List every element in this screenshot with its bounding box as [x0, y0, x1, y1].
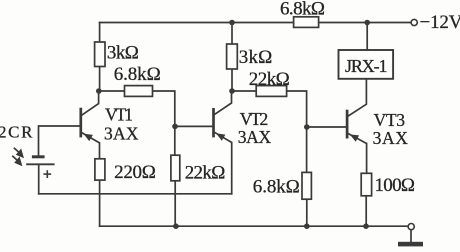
wire 100 R8 bottom to bottom rail: [365, 196, 367, 227]
svg-text:3kΩ: 3kΩ: [239, 47, 272, 68]
resistor R8 100: [361, 173, 371, 196]
resistor R2 6.8k horizontal left: [125, 86, 153, 97]
svg-text:3AX: 3AX: [373, 128, 409, 148]
svg-text:2CR: 2CR: [0, 123, 33, 142]
svg-text:6.8kΩ: 6.8kΩ: [280, 0, 325, 19]
svg-text:JRX-1: JRX-1: [345, 56, 388, 76]
svg-text:−12V: −12V: [420, 12, 460, 33]
wire relay top to supply rail: [366, 23, 368, 51]
svg-text:VT1: VT1: [105, 104, 133, 124]
terminal output bottom: [408, 224, 414, 230]
svg-text:VT2: VT2: [240, 109, 269, 129]
wire 3k R1 top drop: [99, 23, 101, 44]
wire VT1 emitter down to 220 R5: [99, 143, 101, 159]
wire VT2 base horizontal: [175, 125, 213, 127]
junction bottom rail at 22k: [173, 223, 179, 229]
transistor VT1 emitter arrow: [83, 134, 93, 142]
wire node B to 22k R6 left: [232, 90, 257, 92]
wire VT3 emitter down to 100 R8: [366, 144, 368, 174]
transistor VT1: [81, 108, 100, 143]
photocell 2CR plates: [26, 157, 54, 165]
wire 3k R1 bottom to node A: [99, 66, 101, 91]
junction top rail at 3k R3: [229, 20, 235, 26]
wire top supply rail: [100, 22, 411, 24]
wire node A to R2 left: [100, 90, 125, 92]
wire VT3 collector to relay: [348, 79, 367, 116]
wire output terminal to ground: [410, 230, 412, 243]
photocell plus sign: [43, 170, 51, 178]
junction top rail at relay: [364, 20, 370, 26]
wire VT1 collector: [82, 91, 99, 115]
junction node B VT2 collector: [229, 88, 235, 94]
junction VT3 base node: [304, 124, 310, 130]
svg-text:3kΩ: 3kΩ: [107, 43, 139, 64]
terminal -12V: [411, 19, 417, 25]
junction bottom rail at 6.8k: [304, 223, 310, 229]
wire R2 right to VT2 base column: [152, 91, 175, 156]
svg-text:100Ω: 100Ω: [375, 175, 416, 196]
resistor R6 22k horizontal: [256, 86, 286, 97]
resistor R3 3k middle: [227, 44, 238, 69]
photocell light arrow upper: [14, 148, 24, 158]
resistor R4 22k vertical: [171, 155, 180, 181]
svg-text:VT3: VT3: [374, 110, 406, 130]
junction bottom rail at 100: [363, 223, 369, 229]
svg-text:3AX: 3AX: [238, 127, 272, 147]
relay JRX-1 box: [339, 50, 394, 79]
wire 3k R3 drop from rail: [231, 23, 233, 45]
photocell light arrow lower: [12, 156, 22, 166]
wire VT2 emitter drop: [231, 143, 233, 194]
transistor VT3: [347, 110, 367, 144]
svg-text:22kΩ: 22kΩ: [185, 163, 226, 184]
wire VT2 collector: [214, 91, 231, 115]
resistor R5 220: [95, 159, 105, 180]
svg-text:22kΩ: 22kΩ: [249, 69, 290, 90]
wire 220 R5 bottom through rail A to bottom rail: [99, 180, 101, 226]
wire rail A emitters: [39, 193, 232, 195]
svg-text:3AX: 3AX: [104, 124, 139, 144]
wire 22k R4 bottom to bottom rail: [174, 181, 176, 227]
junction VT2 base node: [172, 124, 178, 130]
svg-text:6.8kΩ: 6.8kΩ: [114, 64, 161, 85]
transistor VT3 emitter arrow: [350, 134, 359, 141]
wire 3k R3 bottom to node B: [231, 69, 233, 91]
wire VT3 base horizontal: [307, 126, 347, 128]
svg-text:220Ω: 220Ω: [114, 162, 156, 183]
transistor VT2 emitter arrow: [216, 133, 225, 141]
wire bottom rail: [100, 225, 409, 227]
svg-text:6.8kΩ: 6.8kΩ: [253, 176, 300, 197]
ground: [398, 242, 423, 247]
wire photocell base link: [39, 126, 81, 156]
wire photocell bottom to rail A: [38, 165, 40, 194]
transistor VT2: [214, 108, 232, 143]
wire 6.8k R7 bottom to bottom rail: [306, 199, 308, 226]
wire 22k R6 right to VT3 base column: [286, 91, 307, 173]
resistor R9 6.8k top rail: [294, 17, 319, 28]
resistor R1 3k left: [95, 42, 105, 67]
junction node A VT1 collector: [96, 88, 102, 94]
resistor R7 6.8k vertical: [302, 172, 311, 199]
